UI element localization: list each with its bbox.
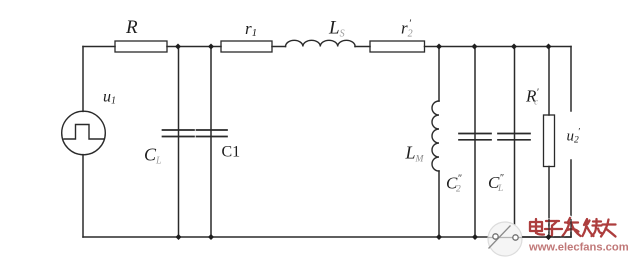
resistor R <box>115 41 167 52</box>
capacitor CL vertical wire <box>178 47 180 238</box>
svg-text:C″2: C″2 <box>446 174 462 195</box>
watermark logo small circle left <box>493 234 498 239</box>
capacitor CL plates <box>163 130 195 137</box>
wire right rail lower tail over watermark <box>570 219 572 237</box>
watermark logo big circle <box>488 222 522 256</box>
capacitor C2'' plates <box>459 134 491 140</box>
capacitor C1 wire <box>210 47 212 238</box>
resistor r2' <box>370 41 425 52</box>
svg-text:C1: C1 <box>222 144 241 161</box>
capacitor CL'' wire <box>514 47 516 238</box>
inductor LM wire top <box>438 47 440 102</box>
watermark logo diagonal needle <box>489 226 511 249</box>
node dot top E (CL'' tap) <box>511 44 517 50</box>
watermark logo small circle right <box>513 235 518 240</box>
svg-text:LM: LM <box>405 143 425 165</box>
node dot bottom C (LM) <box>436 234 442 240</box>
svg-text:u1: u1 <box>103 89 116 107</box>
resistor Rc' wire top <box>548 47 550 116</box>
wire right rail lower segment <box>570 160 572 237</box>
node dot top D (C2'' tap) <box>472 44 478 50</box>
wire top-left horizontal (left rail corner to resistor R) <box>83 46 115 48</box>
wire Rc' lower tail over watermark <box>548 219 550 237</box>
inductor LM coil <box>432 101 439 171</box>
node dot top F (Rc' tap) <box>546 44 552 50</box>
node dot bottom A (CL) <box>176 234 182 240</box>
source u1 pulse symbol <box>64 125 104 140</box>
svg-text:r1: r1 <box>245 19 257 39</box>
svg-text:C″L: C″L <box>488 173 504 194</box>
capacitor CL'' plates <box>498 134 530 140</box>
watermark hanzi 电子发烧友 (red strokes) <box>530 218 616 237</box>
node dot top A (CL tap) <box>175 44 181 50</box>
node dot bottom D (C2'') <box>472 234 478 240</box>
node dot top B (C1 tap) <box>208 44 214 50</box>
node dot bottom B (C1) <box>208 234 214 240</box>
wire left rail upper (corner down to source top) <box>82 47 84 112</box>
resistor Rc' wire bottom <box>548 167 550 238</box>
node dot bottom F (Rc') <box>546 234 552 240</box>
wire top (R to r1 with node taps) <box>167 46 221 48</box>
svg-text:LS: LS <box>328 18 345 40</box>
source u1 circle <box>62 111 106 155</box>
svg-text:CL: CL <box>144 145 162 167</box>
inductor Ls <box>286 40 356 46</box>
wire bottom rail redrawn over watermark <box>522 236 571 238</box>
wire left rail lower (source bottom to bottom rail) <box>82 155 84 237</box>
inductor LM wire bottom <box>438 171 440 237</box>
watermark logo faint bottom wire across circle <box>488 237 522 239</box>
wire bottom rail <box>83 236 571 238</box>
resistor Rc' <box>544 115 555 167</box>
svg-text:r2′: r2′ <box>401 18 413 40</box>
capacitor C2'' wire <box>474 47 476 238</box>
capacitor C1 plates <box>197 130 228 137</box>
wire top (Ls to r2') <box>355 46 370 48</box>
svg-text:www.elecfans.com: www.elecfans.com <box>528 242 629 254</box>
svg-text:u2′: u2′ <box>567 128 581 146</box>
wire top (r2' to right corner) <box>425 46 572 48</box>
node dot top C (LM tap) <box>436 44 442 50</box>
svg-text:R: R <box>125 17 138 38</box>
node dot bottom F (Rc') redrawn <box>546 234 552 240</box>
wire top (r1 to Ls) <box>272 46 286 48</box>
watermark hanzi white halo <box>530 218 616 237</box>
resistor r1 <box>221 41 272 52</box>
wire right rail upper segment <box>570 47 572 112</box>
svg-text:R′c: R′c <box>525 87 539 107</box>
